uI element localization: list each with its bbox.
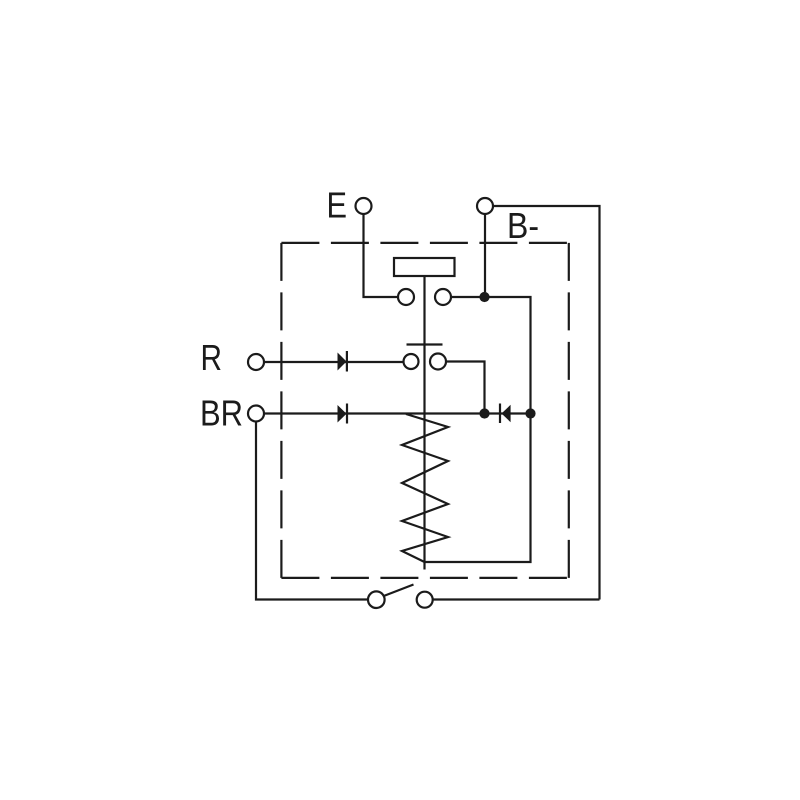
svg-text:B-: B- — [507, 205, 539, 246]
svg-text:R: R — [201, 337, 223, 378]
svg-text:BR: BR — [200, 393, 243, 434]
svg-text:E: E — [327, 185, 348, 226]
